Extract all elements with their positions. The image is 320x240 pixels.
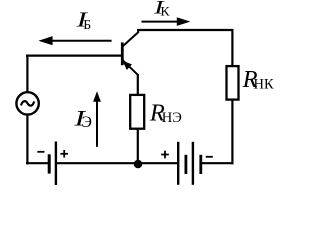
wire: left vertical below AC source [26, 114, 28, 164]
wire: emitter lead down to resistor [137, 74, 139, 95]
wire: bottom middle horizontal [56, 162, 179, 164]
battery E2 short plate 2 [199, 155, 202, 174]
battery E2 long plate 1 [177, 142, 179, 185]
current arrow I_E (middle vertical) [96, 100, 98, 147]
wire: bottom-left horizontal to battery [26, 162, 48, 164]
battery E1 long plate (positive) [55, 142, 57, 186]
svg-text:Б: Б [83, 17, 91, 32]
svg-text:НЭ: НЭ [162, 110, 182, 126]
wire: base wire top-left horizontal [26, 54, 121, 56]
transistor VT1 collector lead [137, 29, 139, 33]
svg-text:НК: НК [254, 76, 274, 92]
wire: right vertical below R_NK [231, 100, 233, 164]
current arrow I_K (top right) [142, 21, 180, 23]
battery E1 short plate (negative) [48, 154, 51, 173]
transistor VT1 emitter arrowhead (PNP, pointing to base) [123, 61, 132, 70]
label plus of E1 [60, 150, 68, 158]
label minus of E1 [37, 151, 44, 153]
wire: below R_NE to junction [137, 129, 139, 164]
wire: bottom right horizontal to battery [201, 162, 233, 164]
label minus of E2 [206, 156, 213, 158]
svg-text:Э: Э [82, 114, 92, 131]
transistor VT1 emitter diagonal [123, 60, 138, 75]
label plus of E2 [161, 151, 169, 159]
junction node dot [134, 160, 143, 169]
current arrow I_B (left) [50, 40, 112, 42]
resistor R_NE box [130, 95, 144, 129]
resistor R_NK box [227, 66, 239, 100]
wire: right vertical above R_NK [231, 29, 233, 67]
transistor VT1 collector diagonal [123, 32, 138, 46]
svg-text:К: К [160, 4, 170, 19]
wire: left vertical above AC source [26, 55, 28, 93]
AC source G1 [16, 92, 38, 114]
AC source sine symbol [21, 101, 34, 106]
battery E2 short plate 1 [184, 155, 187, 174]
wire: top horizontal (collector to right) [137, 29, 233, 31]
transistor VT1 base bar [121, 42, 124, 65]
battery E2 long plate 2 [192, 142, 194, 185]
